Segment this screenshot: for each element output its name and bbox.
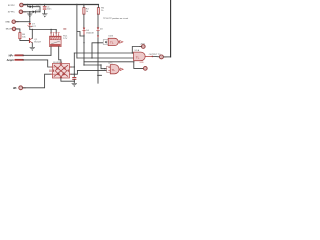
flag gate1 output — [118, 41, 123, 44]
gate U2:C body — [108, 63, 119, 74]
node H2 dot — [91, 57, 92, 58]
node D6-column — [83, 42, 84, 43]
wire J3 — [16, 21, 30, 23]
node hook-join — [83, 35, 84, 36]
wire gate2 output — [145, 56, 159, 58]
svg-text:TL: TL — [136, 55, 140, 59]
connector HP- — [13, 86, 23, 90]
ground G1 — [27, 14, 32, 18]
transistor Q1 — [30, 30, 42, 48]
connector J1 3V PIC — [8, 3, 23, 7]
svg-text:HP+: HP+ — [9, 54, 14, 57]
wire D1 branch — [28, 5, 40, 12]
wire top rail — [23, 4, 98, 6]
connector J3 GND — [5, 20, 15, 24]
node rail-R4 — [83, 4, 85, 6]
connector GND flag — [140, 62, 148, 70]
gate U2:B port — [103, 40, 108, 45]
svg-text:U2:A: U2:A — [135, 49, 140, 52]
wire relay coil hook — [77, 5, 84, 59]
capacitor C4 — [43, 5, 52, 14]
wire J2 to riser — [23, 11, 40, 13]
terminal HP+ — [9, 54, 23, 57]
wire relay top pins — [51, 30, 56, 34]
terminal Ampli — [7, 59, 23, 62]
wire gnd stub / zener column — [29, 12, 31, 23]
svg-text:U2:B: U2:B — [108, 36, 113, 38]
wire H61 under gates to gnd connector — [84, 62, 143, 69]
node rail2-relay — [50, 29, 51, 30]
wire output right riser — [164, 56, 171, 58]
resistor R4 — [83, 8, 90, 15]
svg-text:12V: 12V — [63, 38, 67, 40]
node rail-D1 — [27, 4, 29, 6]
svg-text:MCLR: MCLR — [6, 29, 13, 31]
node J3-zener — [29, 21, 30, 22]
svg-text:OUTPUT TO: OUTPUT TO — [149, 54, 161, 56]
wire J4 to R6 — [16, 29, 29, 41]
diode D6 — [83, 28, 95, 35]
ground G3 — [30, 47, 35, 51]
capacitor C5 — [73, 78, 76, 84]
resistor R6 — [19, 33, 27, 39]
wire H2 gate2 input B — [77, 57, 134, 59]
diode D5 red tip — [97, 36, 99, 38]
flag gate3 output — [119, 68, 123, 71]
pin stubs red — [16, 5, 166, 88]
node H1 dots — [97, 52, 98, 53]
node gate1 input — [97, 42, 99, 44]
gate U2:B body — [108, 36, 118, 46]
wire bridge + output up — [71, 53, 74, 77]
svg-text:BC547: BC547 — [34, 42, 41, 44]
svg-text:100n: 100n — [47, 9, 53, 11]
wire HP+ to relay — [23, 54, 51, 56]
wire relay supply rail — [30, 29, 56, 31]
connector OUTPUT — [149, 54, 164, 59]
diode D2 — [33, 10, 40, 13]
wire H65 to gate3 — [77, 65, 106, 75]
node rail-hook — [76, 4, 77, 5]
wire HP- to bridge — [23, 74, 51, 88]
pin marks — [64, 28, 66, 29]
diode D1 — [30, 5, 40, 8]
node rail-C4 — [44, 4, 45, 5]
node V1 dots — [74, 66, 75, 67]
svg-text:1N4148: 1N4148 — [86, 32, 94, 34]
svg-text:GND: GND — [5, 22, 10, 24]
svg-text:+3V3: +3V3 — [140, 43, 146, 45]
wire H1 gate2 input A — [74, 52, 133, 54]
wire bridge bottom to ground — [61, 78, 74, 81]
connector J4 CMD — [6, 27, 16, 31]
svg-text:B1 W01M: B1 W01M — [53, 62, 62, 64]
gate U2:A body — [134, 49, 146, 61]
ground G4 — [72, 83, 77, 87]
zener D7 — [28, 23, 37, 30]
node H65 dots — [83, 64, 84, 65]
svg-text:TP1-8 TP position on circuit: TP1-8 TP position on circuit — [103, 17, 128, 20]
wire VCC flag to H1 — [132, 47, 141, 54]
gate U2:C port — [107, 66, 111, 72]
connector J2 3V PIC — [8, 10, 23, 14]
wire R5 column — [97, 5, 99, 84]
node J2-gnd — [29, 11, 31, 13]
diode D4 — [97, 27, 104, 30]
svg-text:U2:C: U2:C — [108, 63, 113, 65]
svg-text:TL: TL — [110, 41, 114, 45]
svg-text:3V PIC: 3V PIC — [8, 12, 15, 14]
pin mark bridge left — [49, 70, 51, 71]
svg-text:3V PIC: 3V PIC — [8, 5, 15, 7]
svg-text:HP-: HP- — [13, 87, 17, 90]
wire relay bottom pins — [51, 47, 61, 63]
connector VCC flag — [140, 43, 146, 48]
wire R4 column — [83, 5, 85, 66]
node rail-riser — [39, 4, 41, 6]
svg-text:GND: GND — [140, 62, 145, 64]
svg-text:TL: TL — [112, 68, 116, 72]
ground G2 — [42, 14, 47, 18]
svg-text:Ampli: Ampli — [7, 59, 14, 62]
wire gate1 input net — [92, 43, 103, 58]
relay RL1 — [50, 33, 69, 47]
wire bridge - output up — [71, 70, 77, 74]
resistor R5 — [97, 8, 104, 15]
node rail2-Q1 — [32, 29, 33, 30]
bridge rectifier B1 — [51, 62, 71, 78]
wire Ampli to bridge — [23, 60, 51, 67]
